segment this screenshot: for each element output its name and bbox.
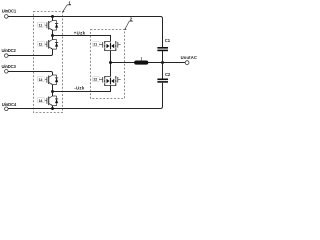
callout arrow 2 bbox=[124, 21, 133, 30]
port UoutAC bbox=[185, 61, 189, 65]
node filter junction bbox=[161, 61, 164, 64]
svg-text:C2: C2 bbox=[165, 72, 171, 77]
IGBT 13 bbox=[37, 74, 58, 92]
svg-text:22: 22 bbox=[93, 78, 97, 82]
IGBT 11 bbox=[37, 17, 58, 36]
node -Uzk junction bbox=[51, 90, 54, 93]
wire: top rail to right riser bbox=[53, 17, 163, 48]
svg-text:+Uzk: +Uzk bbox=[74, 31, 86, 36]
capacitor C2 bbox=[157, 79, 168, 83]
IGBT 14 bbox=[37, 92, 58, 109]
svg-text:C1: C1 bbox=[165, 38, 171, 43]
svg-text:UinDC3: UinDC3 bbox=[2, 64, 17, 69]
node bottom rail junction bbox=[51, 107, 54, 110]
wire: UinDC1 to top rail bbox=[8, 16, 52, 18]
svg-text:13: 13 bbox=[39, 78, 43, 82]
subsystem box 1 (IGBT leg, dashed) bbox=[34, 12, 63, 113]
node output junction at switches bbox=[109, 61, 112, 64]
inductor L1 tick bbox=[140, 57, 142, 61]
node: top rail junction bbox=[51, 15, 54, 18]
port UinDC3 bbox=[5, 70, 9, 74]
callout arrow 1 bbox=[62, 5, 71, 12]
port UinDC2 bbox=[5, 54, 9, 58]
svg-text:UinDC1: UinDC1 bbox=[2, 8, 17, 13]
svg-text:-Uzk: -Uzk bbox=[74, 85, 85, 90]
wire -Uzk to switch 22 bbox=[53, 86, 111, 92]
svg-text:11: 11 bbox=[39, 23, 43, 27]
svg-text:UinDC2: UinDC2 bbox=[2, 48, 17, 53]
node +Uzk junction bbox=[51, 34, 54, 37]
subsystem box 2 (bidirectional switches, dashed) bbox=[91, 30, 125, 99]
wire +Uzk to switch 21 bbox=[53, 36, 111, 42]
svg-text:UoutAC: UoutAC bbox=[181, 55, 197, 60]
IGBT 12 bbox=[37, 36, 58, 54]
port UinDC4 bbox=[5, 107, 9, 111]
svg-text:12: 12 bbox=[39, 42, 43, 46]
wire: output node bbox=[111, 62, 186, 64]
svg-text:14: 14 bbox=[39, 99, 43, 103]
wire: UinDC3 into leg bbox=[8, 72, 52, 76]
bidirectional MOSFET switch 22 bbox=[92, 63, 120, 92]
capacitor C1 bbox=[157, 47, 168, 51]
wire riser between capacitors bbox=[162, 51, 164, 79]
bidirectional MOSFET switch 21 bbox=[92, 36, 120, 63]
wire: UinDC2 into leg bbox=[8, 49, 52, 55]
wire: bottom rail UinDC4 to right riser bbox=[8, 83, 162, 109]
svg-text:21: 21 bbox=[93, 43, 97, 47]
svg-text:UinDC4: UinDC4 bbox=[2, 102, 17, 107]
port UinDC1 bbox=[5, 15, 9, 19]
inductor L1 bbox=[134, 61, 148, 65]
